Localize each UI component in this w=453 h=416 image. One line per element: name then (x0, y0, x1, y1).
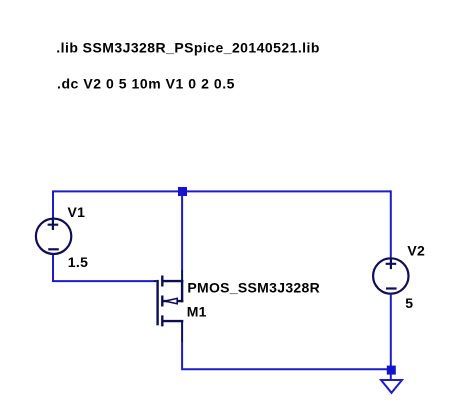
svg-text:PMOS_SSM3J328R: PMOS_SSM3J328R (187, 279, 320, 295)
voltage source V2 (373, 258, 408, 293)
svg-text:V2: V2 (407, 243, 425, 259)
svg-text:M1: M1 (187, 304, 207, 320)
ground (381, 380, 402, 393)
bulk arrow (165, 298, 177, 303)
channel segment top (161, 276, 163, 287)
svg-text:.lib SSM3J328R_PSpice_20140521: .lib SSM3J328R_PSpice_20140521.lib (56, 40, 320, 56)
wire ground stub (390, 374, 392, 380)
wire M1 source up to junction (181, 191, 183, 270)
spice directive .lib (56, 40, 320, 56)
label PMOS_SSM3J328R (187, 279, 320, 295)
bulk stub (162, 300, 183, 302)
gate bar (156, 280, 158, 325)
transistor M1 PMOS (154, 270, 183, 342)
wire left stem from top rail to V1 (52, 190, 54, 218)
wire top rail (53, 190, 391, 192)
source stub (162, 280, 183, 282)
spice directive .dc (57, 76, 235, 92)
wire M1 drain to bottom rail (182, 342, 391, 369)
channel segment bottom (161, 315, 163, 326)
value 5 (405, 295, 413, 311)
svg-text:V1: V1 (68, 204, 86, 220)
node junction at top rail / M1 source (178, 187, 187, 196)
label V1 (68, 204, 86, 220)
drain stub (162, 320, 183, 322)
gate lead (154, 280, 156, 282)
channel segment middle (161, 296, 163, 307)
svg-text:5: 5 (405, 295, 413, 311)
label M1 (187, 304, 207, 320)
node junction at ground (387, 366, 396, 375)
wire V2 bottom to ground node (390, 295, 392, 370)
wire V1 bottom to M1 gate (53, 255, 154, 281)
wire right rail down to V2 (390, 190, 392, 257)
source-bulk vertical (181, 280, 183, 302)
voltage source V1 (36, 219, 71, 254)
value 1.5 (68, 254, 88, 270)
label V2 (407, 243, 425, 259)
svg-text:.dc V2 0 5 10m V1 0 2 0.5: .dc V2 0 5 10m V1 0 2 0.5 (57, 76, 235, 92)
drain pin lead (181, 321, 183, 342)
source pin lead (181, 270, 183, 281)
svg-text:1.5: 1.5 (68, 254, 88, 270)
